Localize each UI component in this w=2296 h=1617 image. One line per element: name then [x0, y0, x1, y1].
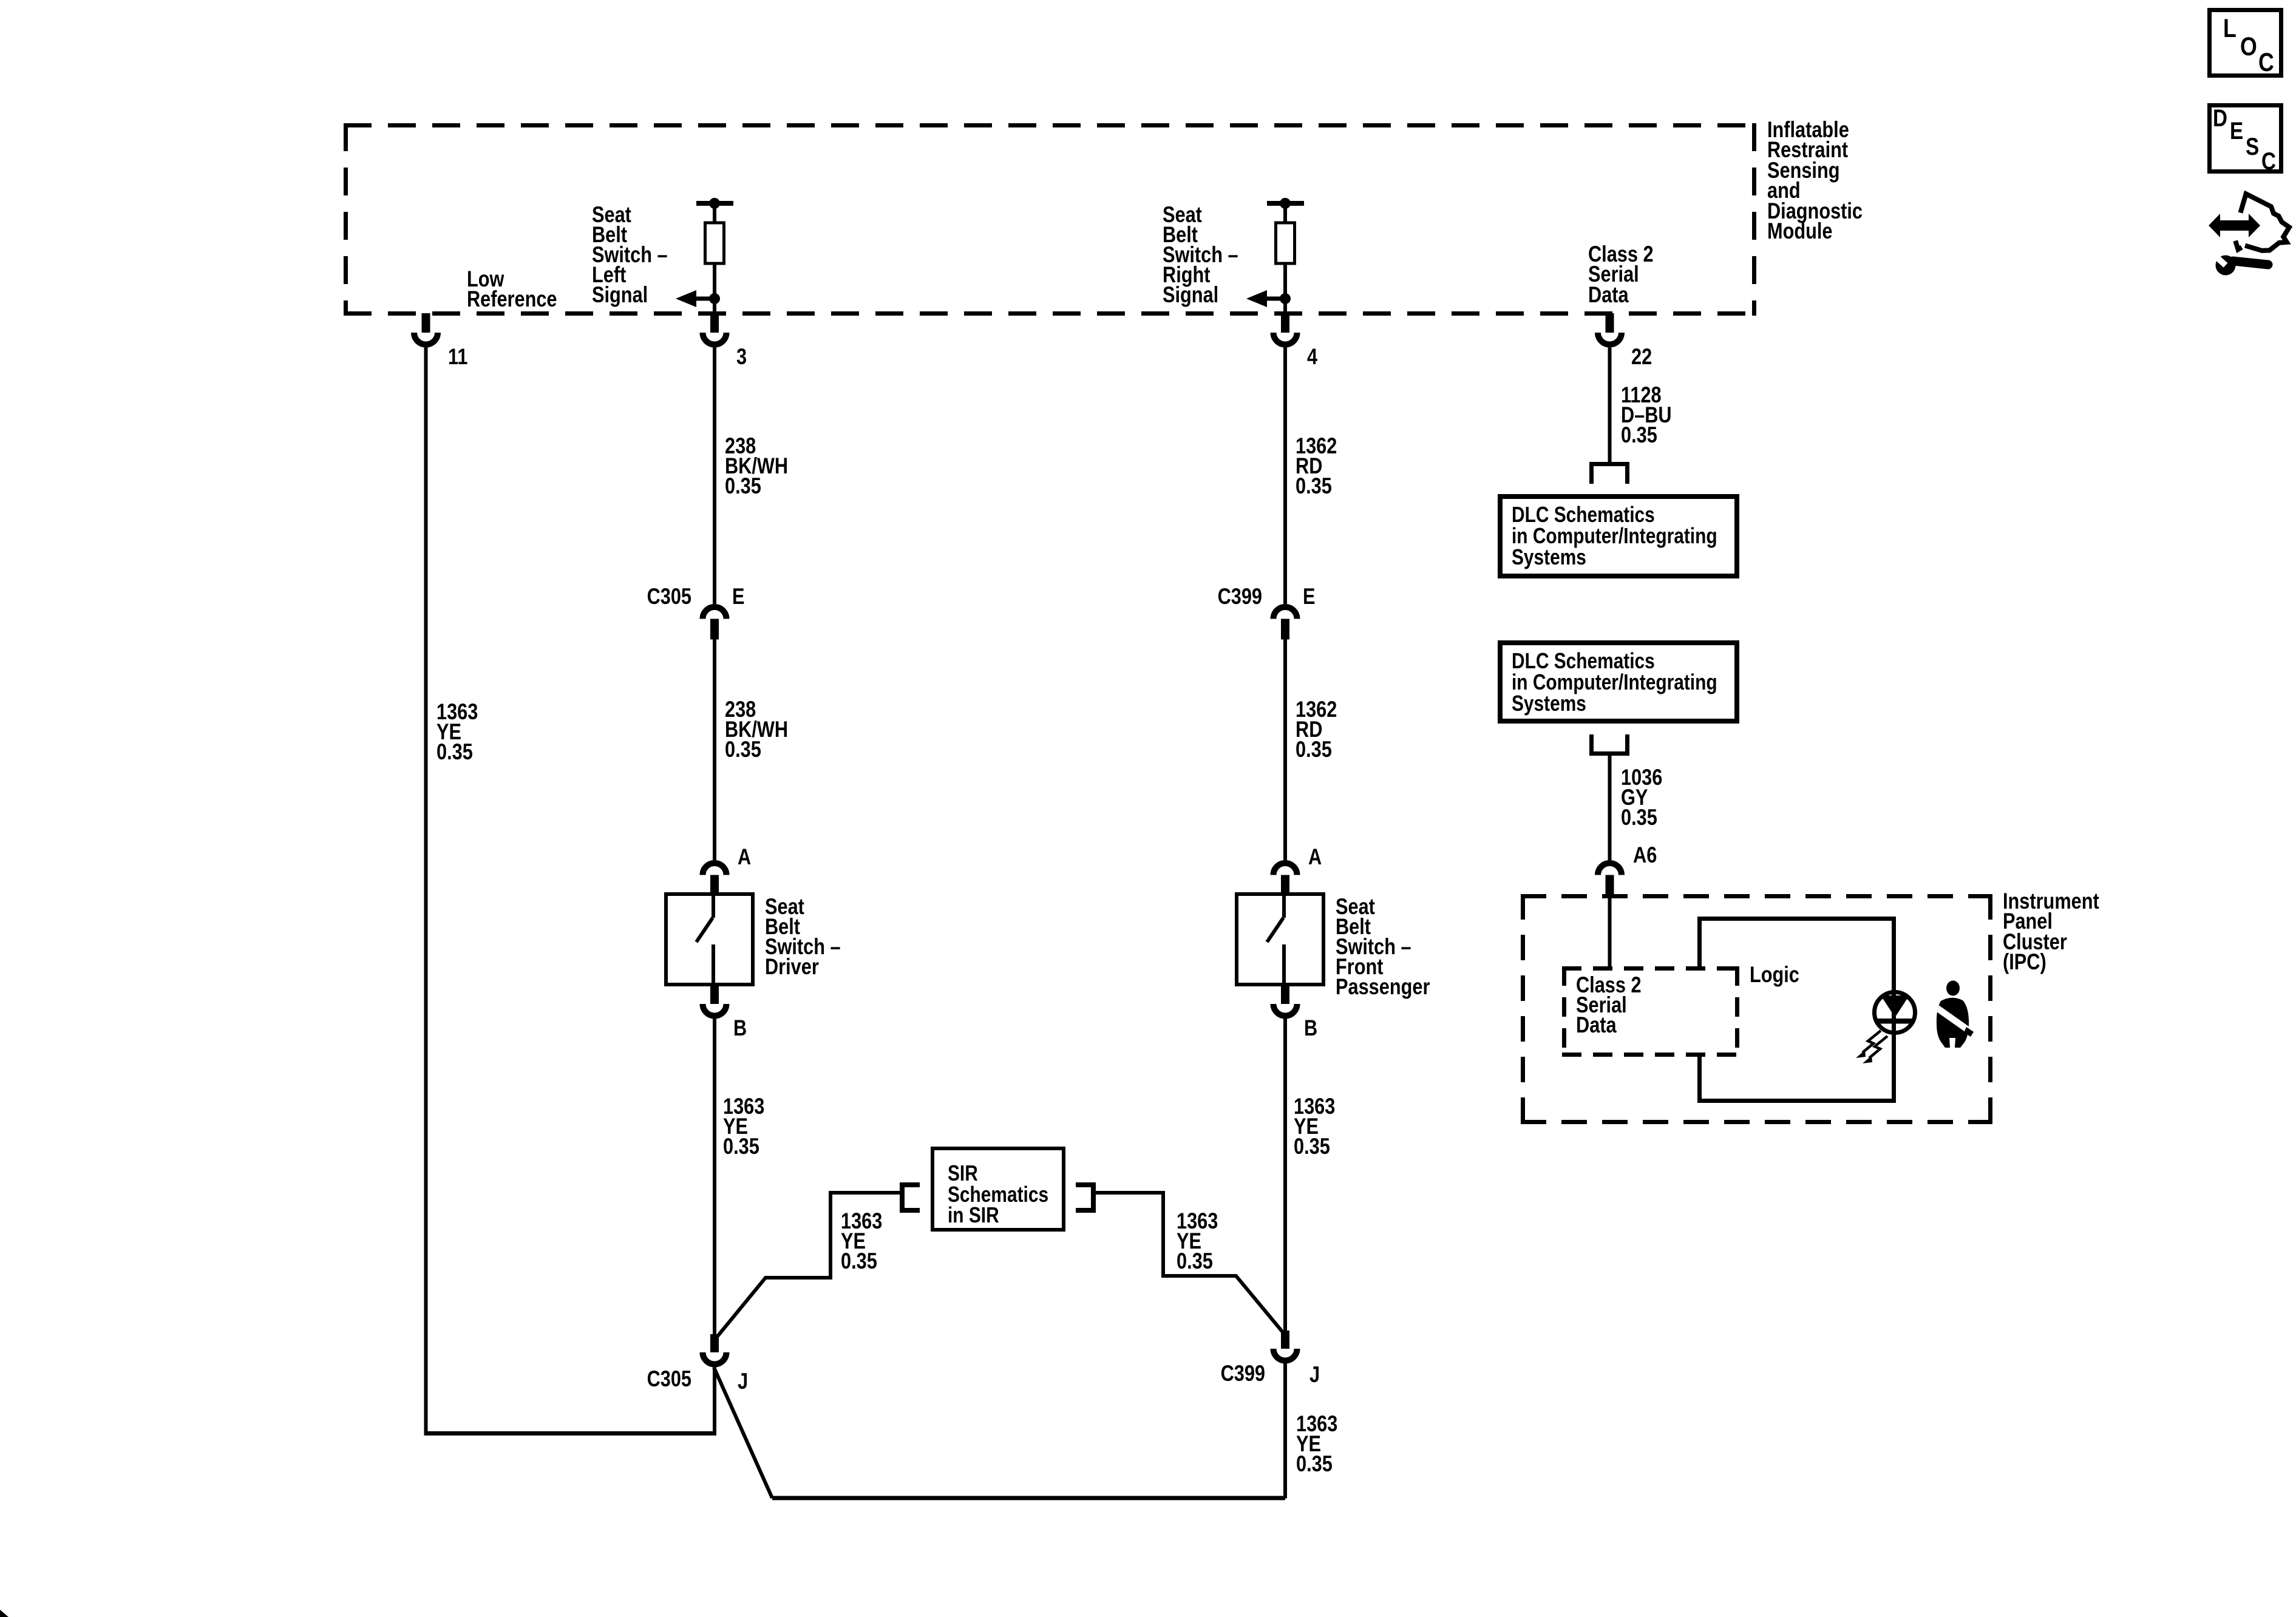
wire: 1363 YE below passenger B — [1283, 1019, 1287, 1331]
svg-text:E: E — [2230, 118, 2243, 144]
svg-text:Module: Module — [1767, 219, 1833, 243]
label: DLC Schematics in Computer/Integrating Systems (2) — [1512, 648, 1717, 716]
DLC Schematics box 2 — [1500, 643, 1737, 721]
svg-text:4: 4 — [1307, 344, 1317, 369]
svg-text:in SIR: in SIR — [948, 1202, 999, 1227]
connector C305 J — [703, 1334, 727, 1364]
DESC letters — [2213, 105, 2276, 175]
corner artifact mark — [0, 1610, 8, 1617]
pin 4 connector — [1274, 313, 1297, 345]
label: 1363 YE 0.35 (driver) — [723, 1094, 764, 1159]
svg-text:Data: Data — [1588, 282, 1629, 307]
resistor R right (Seat Belt Switch - Right Signal) top bar — [1267, 201, 1304, 206]
LED D1 (seat belt indicator) — [1875, 992, 1915, 1033]
svg-text:A: A — [1308, 844, 1322, 869]
wire: bottom bus to C399 J — [1283, 1364, 1287, 1499]
svg-text:B: B — [733, 1015, 747, 1040]
wire: 1128 D-BU from pin 22 — [1608, 348, 1612, 463]
svg-text:Driver: Driver — [765, 954, 819, 979]
label: DLC Schematics in Computer/Integrating Systems (1) — [1512, 502, 1717, 569]
svg-text:C305: C305 — [647, 1366, 691, 1391]
wire — [1283, 263, 1287, 313]
double arrow — [2209, 214, 2260, 237]
svg-text:0.35: 0.35 — [1296, 1451, 1333, 1476]
connector A (passenger switch) — [1274, 863, 1297, 892]
wire: diagonal to C399 J — [1236, 1276, 1283, 1333]
resistor R right body — [1276, 223, 1295, 263]
svg-text:0.35: 0.35 — [1621, 805, 1657, 830]
connector C399 J — [1274, 1331, 1297, 1361]
connector C305 E — [703, 607, 727, 640]
wire: diagonal C305 J to bottom bus — [714, 1368, 772, 1498]
wire: SIR left lead — [764, 1191, 900, 1280]
svg-text:J: J — [738, 1369, 748, 1394]
label: 1363 YE 0.35 (bottom) — [1296, 1411, 1337, 1476]
label: 1363 YE 0.35 (SIR right) — [1177, 1209, 1218, 1273]
seat belt person icon — [1934, 981, 1974, 1048]
svg-text:E: E — [732, 584, 745, 609]
label: 238 BK/WH 0.35 (upper) — [725, 433, 788, 498]
pin 3 connector — [703, 313, 727, 345]
svg-text:0.35: 0.35 — [725, 473, 761, 498]
SIR right bracket — [1076, 1182, 1096, 1213]
svg-text:22: 22 — [1631, 344, 1652, 369]
svg-text:E: E — [1303, 584, 1316, 609]
wire — [1283, 206, 1287, 223]
wire: 238 BK/WH lower segment — [713, 640, 716, 861]
LOC letters — [2223, 14, 2274, 77]
DESC box — [2210, 106, 2281, 172]
resistor R left body — [705, 223, 724, 263]
svg-text:0.35: 0.35 — [436, 739, 473, 764]
svg-text:A: A — [738, 844, 751, 869]
off-page bracket above DLC 1 — [1589, 462, 1629, 484]
Logic box — [1697, 917, 1896, 1103]
connector A6 (IPC) — [1598, 863, 1622, 894]
junction dot left arrow — [709, 293, 720, 304]
LED emission arrows — [1863, 1031, 1887, 1058]
wire: 1363 YE below driver B — [713, 1019, 716, 1335]
svg-text:0.35: 0.35 — [1296, 473, 1332, 498]
svg-text:A6: A6 — [1633, 842, 1657, 867]
label: 238 BK/WH 0.35 (lower) — [725, 697, 788, 762]
svg-text:0.35: 0.35 — [1294, 1134, 1330, 1159]
routing/hand icon — [2241, 194, 2289, 251]
wire: Low Reference bottom horizontal — [424, 1431, 717, 1436]
svg-text:J: J — [1309, 1362, 1320, 1387]
SIR left bracket — [900, 1182, 920, 1213]
wire — [713, 206, 716, 223]
svg-text:0.35: 0.35 — [723, 1134, 759, 1159]
pin 22 connector — [1598, 313, 1622, 345]
wire: SIR right lead — [1096, 1191, 1237, 1278]
svg-text:C305: C305 — [647, 584, 691, 609]
svg-text:(IPC): (IPC) — [2003, 949, 2046, 974]
switch SW1 Seat Belt Switch - Driver box — [666, 894, 753, 985]
arrow left signal — [676, 290, 715, 307]
junction dot right arrow — [1280, 293, 1291, 304]
resistor R left (Seat Belt Switch - Left Signal) top bar — [696, 201, 733, 206]
wire: bottom bus horizontal — [772, 1496, 1285, 1500]
svg-text:L: L — [2223, 14, 2237, 43]
wire: 1362 RD lower segment — [1283, 640, 1287, 861]
pin 11 connector — [414, 313, 438, 345]
label: Seat Belt Switch - Right Signal — [1163, 202, 1238, 307]
LOC box — [2210, 10, 2281, 76]
switch SW1 blade — [696, 894, 713, 985]
svg-text:S: S — [2246, 134, 2259, 160]
wire: 1036 GY — [1608, 756, 1612, 860]
svg-text:Signal: Signal — [592, 282, 648, 307]
svg-text:C: C — [2258, 48, 2274, 77]
label: 1128 D-BU 0.35 — [1621, 382, 1672, 447]
label: Inflatable Restraint Sensing and Diagnostic Module — [1767, 117, 1863, 243]
svg-text:Data: Data — [1576, 1012, 1617, 1037]
DLC Schematics box 1 — [1500, 497, 1737, 576]
svg-text:O: O — [2240, 32, 2257, 61]
label: 1362 RD 0.35 (lower) — [1296, 697, 1337, 762]
wire: A6 stub to Class 2 box — [1608, 894, 1612, 966]
svg-text:Reference: Reference — [467, 286, 557, 311]
label: Low Reference — [467, 266, 557, 311]
svg-text:0.35: 0.35 — [725, 737, 761, 762]
connector A (driver switch) — [703, 863, 727, 892]
off-page bracket below DLC 2 — [1589, 734, 1629, 756]
wire: diagonal to C305 J — [716, 1278, 766, 1338]
svg-text:Systems: Systems — [1512, 691, 1586, 716]
svg-text:C399: C399 — [1218, 584, 1262, 609]
svg-text:Systems: Systems — [1512, 544, 1586, 569]
label: Instrument Panel Cluster (IPC) — [2003, 889, 2099, 974]
connector B (driver switch) — [703, 986, 727, 1016]
svg-text:0.35: 0.35 — [1177, 1249, 1213, 1273]
label: 1036 GY 0.35 — [1621, 765, 1662, 830]
label: 1363 YE 0.35 (passenger) — [1294, 1094, 1335, 1159]
wrench icon — [2212, 252, 2268, 275]
label: Class 2 Serial Data (IPC) — [1576, 972, 1642, 1037]
label: Seat Belt Switch - Front Passenger — [1336, 894, 1430, 999]
label: 1362 RD 0.35 (upper) — [1296, 433, 1337, 498]
svg-text:Logic: Logic — [1750, 962, 1799, 987]
junction dot left top — [709, 198, 720, 209]
wire: 238 BK/WH upper segment — [713, 348, 716, 605]
svg-text:C399: C399 — [1221, 1361, 1265, 1386]
connector B (passenger switch) — [1274, 986, 1297, 1016]
connector C399 E — [1274, 607, 1297, 640]
label: Class 2 Serial Data (module) — [1588, 242, 1654, 307]
SIR box — [932, 1148, 1064, 1230]
IPC dashed box (Instrument Panel Cluster) — [1521, 894, 1992, 1124]
svg-text:0.35: 0.35 — [1296, 737, 1332, 762]
svg-text:C: C — [2261, 148, 2276, 175]
label: 1363 YE 0.35 (low reference) — [436, 699, 478, 764]
Class 2 Serial Data dashed box (IPC) — [1562, 966, 1739, 1057]
svg-text:Signal: Signal — [1163, 282, 1218, 307]
junction dot right top — [1280, 198, 1291, 209]
switch SW2 blade — [1267, 894, 1284, 985]
SDM module dashed box (Inflatable Restraint Sensing and Diagnostic Module) — [344, 123, 1756, 316]
svg-text:3: 3 — [736, 344, 747, 369]
svg-text:Passenger: Passenger — [1336, 974, 1430, 999]
svg-text:0.35: 0.35 — [841, 1249, 877, 1273]
label: Seat Belt Switch - Driver — [765, 894, 841, 979]
wire: below C305 J to low ref junction — [713, 1368, 716, 1434]
wire: 1362 RD upper segment — [1283, 348, 1287, 605]
label: SIR Schematics in SIR — [948, 1161, 1048, 1227]
label: 1363 YE 0.35 (SIR left) — [841, 1209, 882, 1273]
wire — [713, 263, 716, 313]
switch SW2 Seat Belt Switch - Front Passenger box — [1237, 894, 1323, 985]
svg-text:B: B — [1304, 1015, 1317, 1040]
svg-text:D: D — [2213, 105, 2227, 132]
wire: Low Reference vertical (1363 YE) — [424, 348, 428, 1434]
svg-text:0.35: 0.35 — [1621, 422, 1657, 447]
svg-text:11: 11 — [448, 344, 468, 369]
arrow right signal — [1246, 290, 1285, 307]
label: Seat Belt Switch - Left Signal — [592, 202, 668, 307]
